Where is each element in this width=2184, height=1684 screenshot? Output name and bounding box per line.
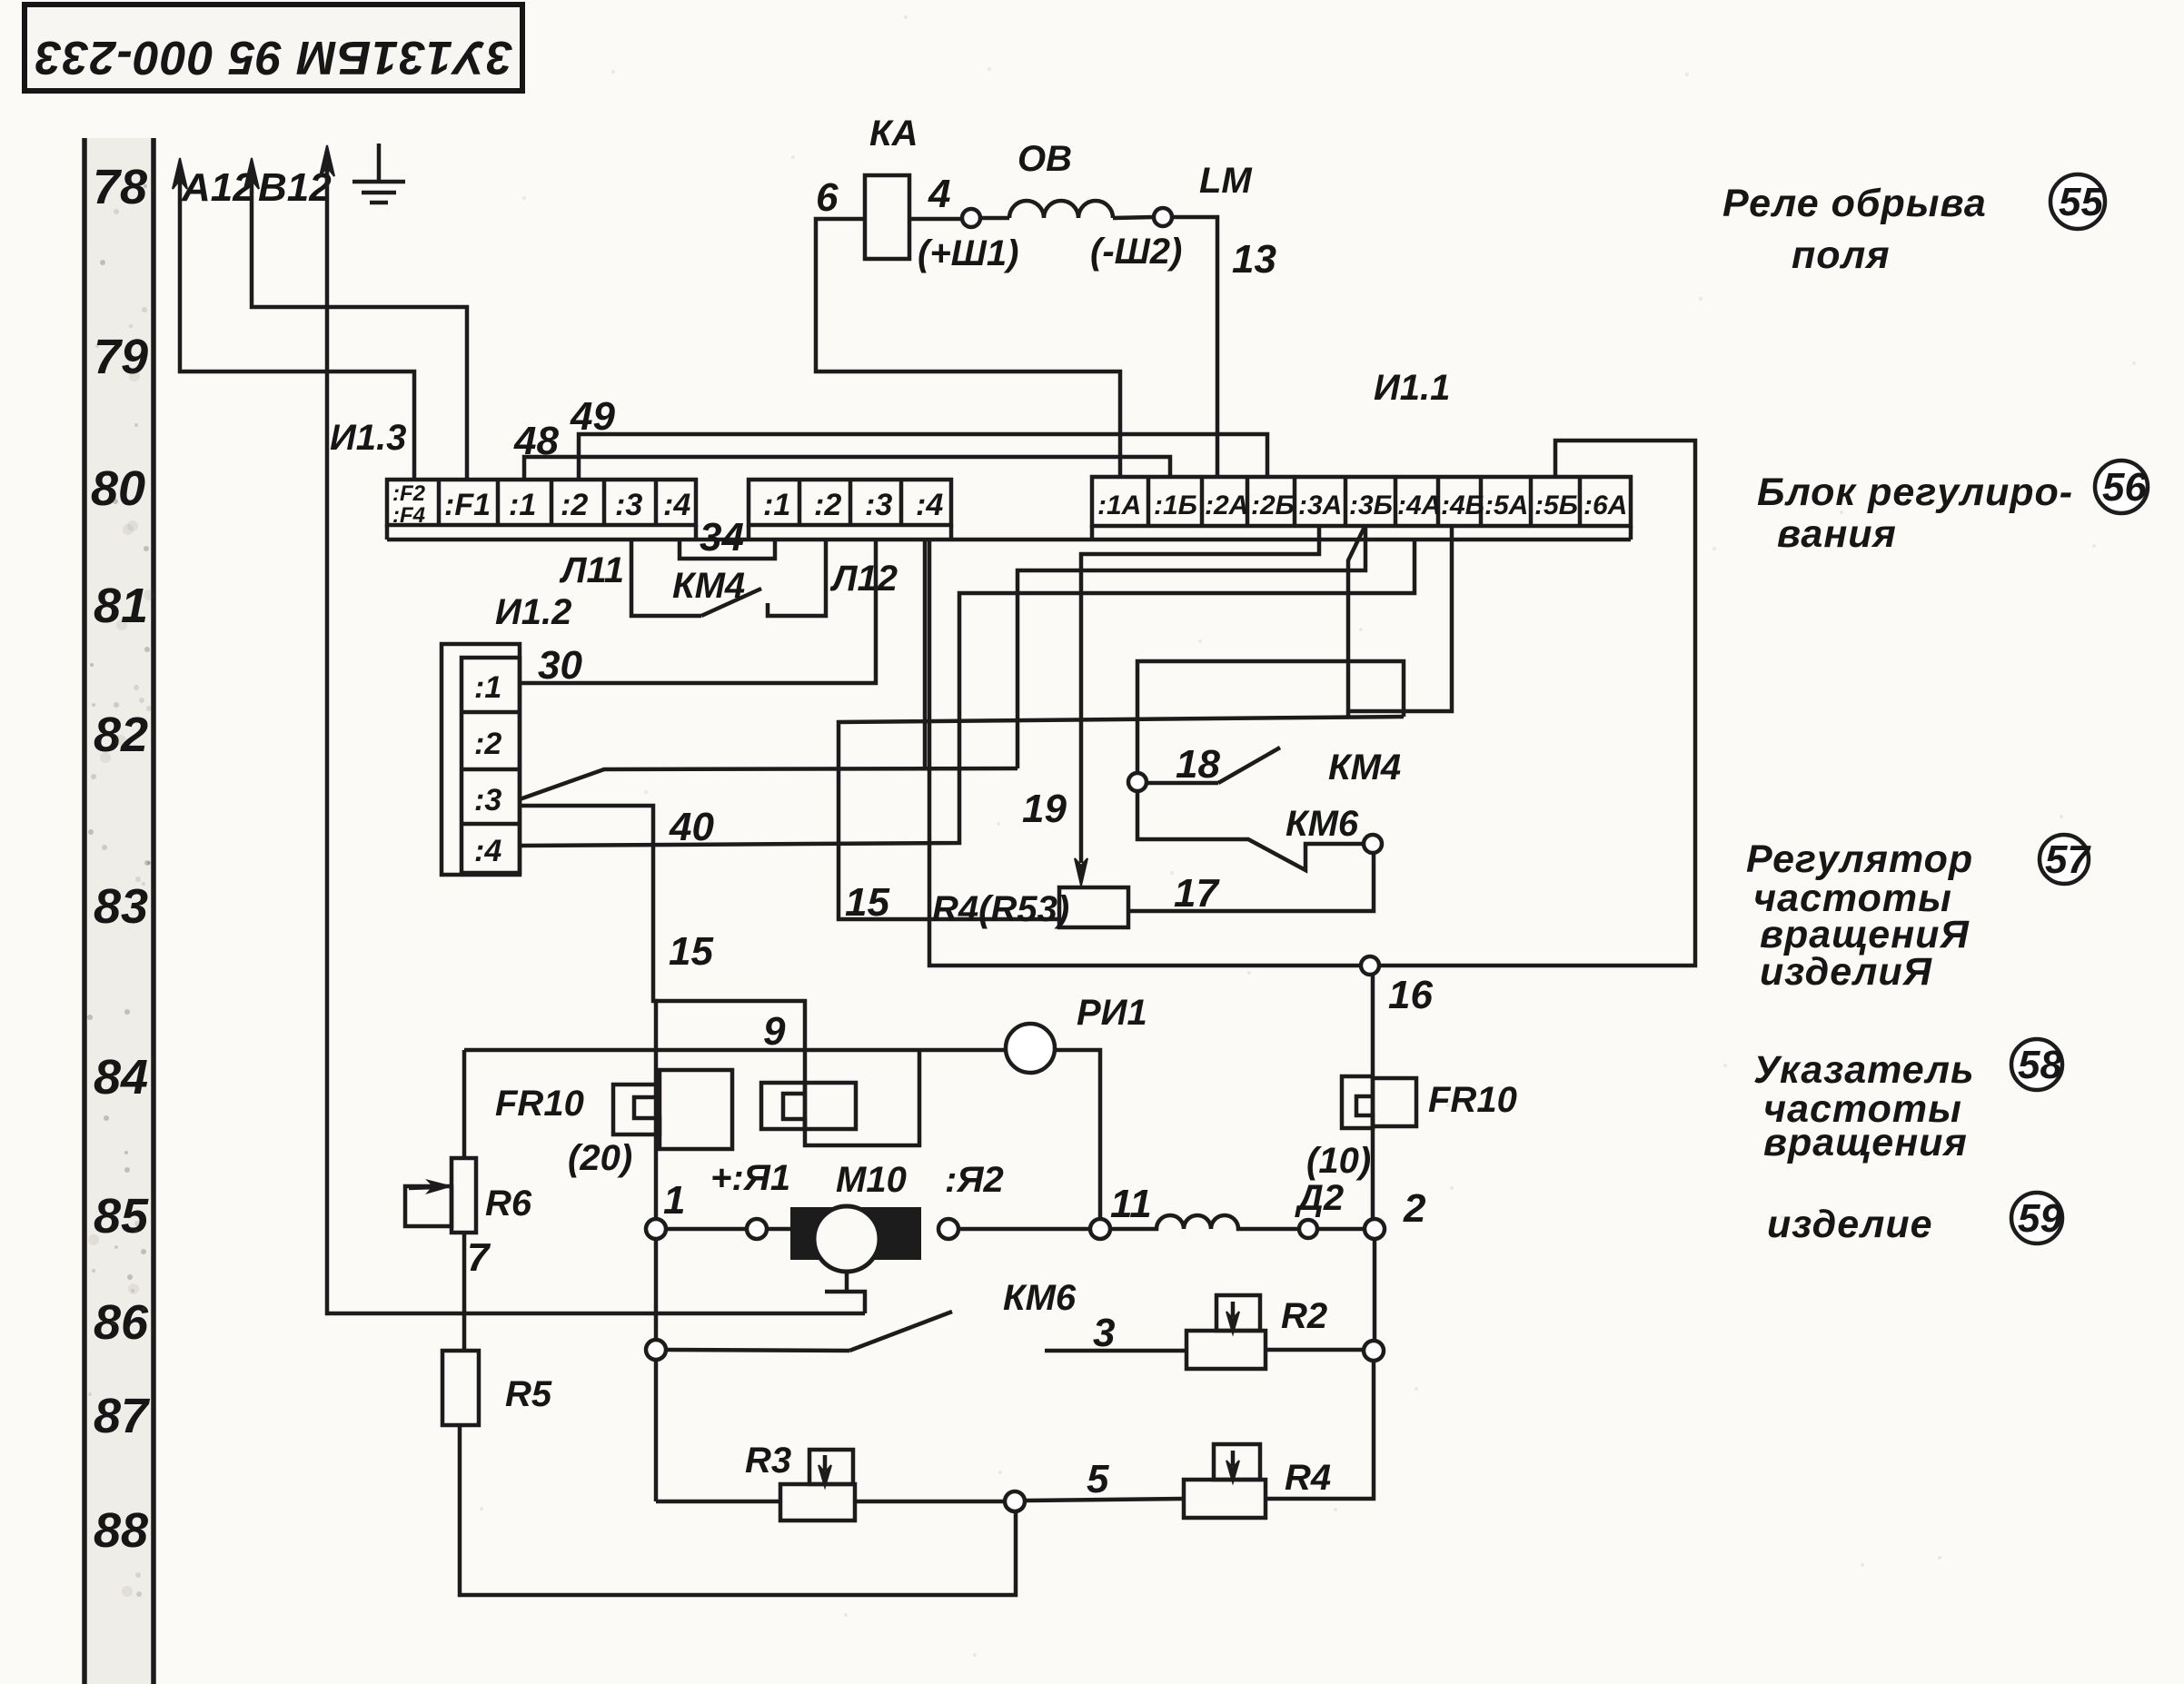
wire 13 (Sh2 to :2A) <box>1172 217 1217 478</box>
R2 wiper box <box>1216 1295 1260 1331</box>
svg-text:R2: R2 <box>1281 1296 1327 1336</box>
svg-text:79: 79 <box>94 330 148 384</box>
svg-text:Указатель: Указатель <box>1753 1048 1975 1092</box>
callout 57 <box>2040 835 2089 884</box>
svg-text::5Б: :5Б <box>1534 490 1578 520</box>
wire I1.3 long vertical <box>327 153 865 1313</box>
wire A12 <box>180 168 414 480</box>
svg-text::1: :1 <box>474 670 501 705</box>
svg-text:вания: вания <box>1777 512 1897 556</box>
svg-text:КМ6: КМ6 <box>1286 804 1359 844</box>
svg-text::2Б: :2Б <box>1251 490 1295 520</box>
node KM6 row <box>646 1340 666 1360</box>
resistor R5 <box>442 1351 479 1425</box>
svg-text:(20): (20) <box>568 1138 632 1178</box>
svg-text:изделиЯ: изделиЯ <box>1760 950 1933 994</box>
wire B12 <box>252 168 467 480</box>
svg-text:3У131БМ 95 000-233: 3У131БМ 95 000-233 <box>35 31 513 84</box>
wire B12 arrow <box>244 158 259 189</box>
R6 arrow <box>409 1187 436 1188</box>
wire 16 bridge (I1.3b:4 to :5B) <box>929 441 1695 966</box>
svg-text:16: 16 <box>1388 973 1433 1017</box>
svg-text:R5: R5 <box>505 1374 552 1414</box>
wire KM4 c1 up and over <box>1137 661 1404 773</box>
R4 wiper arrow <box>1231 1451 1236 1466</box>
svg-text:изделие: изделие <box>1767 1203 1933 1246</box>
fuse FR10 right <box>1342 1076 1416 1128</box>
svg-text:18: 18 <box>1176 742 1220 787</box>
wire 15 (I1.2:3 diagonal feeder) <box>520 768 1018 799</box>
svg-text::F1: :F1 <box>444 488 491 522</box>
RI1 top wire <box>464 1048 1006 1053</box>
wire node down to R4 <box>1266 1361 1374 1499</box>
svg-text:7: 7 <box>467 1235 491 1280</box>
wire junction16 to node 2 through fuse right <box>1371 975 1375 1219</box>
wire :3B diagonal down to net 15 <box>1348 527 1365 716</box>
margin strip background <box>87 138 153 1684</box>
wire KM6 row left <box>666 1350 849 1351</box>
wire node2 down chain <box>1373 1239 1377 1341</box>
svg-text:4: 4 <box>928 172 950 216</box>
wire KA right to Sh1 <box>909 217 962 222</box>
wire L11 (I1.3:3 down) <box>631 541 701 616</box>
svg-text:17: 17 <box>1174 871 1220 916</box>
node R2 right <box>1364 1341 1384 1361</box>
svg-text:86: 86 <box>94 1295 149 1350</box>
svg-text:15: 15 <box>669 929 713 974</box>
motor M10 rotor <box>814 1206 879 1272</box>
wire 15/9 (I1.2:3 down to node 1) <box>520 806 656 1220</box>
svg-text:83: 83 <box>94 879 148 934</box>
inductor OB <box>1009 201 1113 218</box>
wire R3 to node 5 <box>855 1500 1005 1504</box>
svg-text::Я2: :Я2 <box>945 1160 1004 1200</box>
wire coil to Sh2 <box>1113 217 1154 218</box>
wire node1 down <box>654 1239 659 1340</box>
wire 9 jog to fuse B <box>656 1001 919 1145</box>
R2 wiper arrow <box>1231 1302 1236 1317</box>
contact KM4 blade (lower of I1.3) <box>701 589 761 616</box>
svg-text:55: 55 <box>2059 180 2103 224</box>
svg-text:R3: R3 <box>745 1441 791 1481</box>
contact KM4 fixed side with wire L12 to I1.3b:2 <box>768 541 826 616</box>
svg-text:15: 15 <box>845 880 889 925</box>
contact KM4 pivot <box>1128 773 1147 791</box>
svg-text:КА: КА <box>869 114 918 154</box>
svg-text:30: 30 <box>538 643 582 688</box>
relay KA <box>865 175 909 259</box>
svg-text:+:Я1: +:Я1 <box>710 1158 790 1198</box>
potentiometer R4(R53) <box>1059 887 1128 927</box>
svg-text::1: :1 <box>509 488 536 522</box>
svg-text::2: :2 <box>474 727 501 761</box>
wire to R2 <box>1045 1349 1186 1353</box>
wire 6 (KA left to :1A) <box>816 219 1120 478</box>
wire up to I1.3b:4 <box>923 541 928 768</box>
svg-text:Л12: Л12 <box>829 559 898 599</box>
motor ground stub <box>825 1272 865 1313</box>
svg-text:Реле обрыва: Реле обрыва <box>1722 182 1987 225</box>
svg-text:87: 87 <box>94 1389 151 1443</box>
svg-text:И1.1: И1.1 <box>1374 368 1450 408</box>
connector block I1.3 <box>387 480 696 525</box>
R4 wiper box <box>1214 1444 1260 1480</box>
svg-text::2: :2 <box>814 488 841 522</box>
potentiometer R3 <box>780 1484 855 1521</box>
svg-text::4: :4 <box>663 488 690 522</box>
wire 30 (I1.2:1 to I1.3b:3) <box>520 541 876 683</box>
callout 56 <box>2095 461 2148 513</box>
svg-text::3А: :3А <box>1298 490 1342 520</box>
svg-text:56: 56 <box>2102 465 2147 510</box>
svg-text:И1.3: И1.3 <box>330 418 406 458</box>
callout 55 <box>2050 174 2105 229</box>
stamp box <box>25 5 522 91</box>
wire Ya2 to node 11 <box>958 1227 1090 1232</box>
svg-text:FR10: FR10 <box>1428 1080 1517 1120</box>
wire R4 left to node 5 <box>1025 1499 1184 1501</box>
svg-text::1: :1 <box>763 488 790 522</box>
terminal D2 <box>1299 1220 1317 1238</box>
svg-text:2: 2 <box>1403 1186 1426 1231</box>
contact KM4 open blade <box>1218 748 1280 783</box>
svg-text:вращения: вращения <box>1763 1121 1968 1164</box>
svg-text:1: 1 <box>663 1178 685 1223</box>
margin strip right border line <box>151 138 156 1684</box>
svg-text:(10): (10) <box>1306 1141 1371 1181</box>
svg-text:40: 40 <box>669 805 714 849</box>
margin strip left border line <box>82 138 87 1684</box>
connector block I1.2 cells <box>462 658 520 873</box>
svg-text:Л11: Л11 <box>559 550 624 590</box>
svg-text::F2: :F2 <box>392 481 426 506</box>
wire D2 to node 2 <box>1317 1227 1365 1232</box>
svg-text::F4: :F4 <box>392 503 425 528</box>
wire node1 column to R3 row <box>654 1360 659 1501</box>
arrowhead wire 19 <box>1075 858 1087 886</box>
contact KM6 fixed pivot <box>1364 835 1382 853</box>
connector block I1.1 <box>1092 477 1631 526</box>
wire RI1 to node 11 <box>1055 1050 1100 1219</box>
jumper 34 <box>680 541 775 559</box>
svg-text:5: 5 <box>1087 1457 1109 1501</box>
wire R5 to bottom rail <box>460 1425 1016 1595</box>
contact KM4 line <box>1147 781 1218 786</box>
svg-text:59: 59 <box>2018 1196 2062 1241</box>
svg-text:Регулятор: Регулятор <box>1746 837 1973 881</box>
svg-text:Д2: Д2 <box>1295 1178 1344 1218</box>
svg-text::2А: :2А <box>1205 490 1248 520</box>
svg-text:РИ1: РИ1 <box>1077 993 1147 1033</box>
svg-text:(+Ш1): (+Ш1) <box>918 233 1018 273</box>
wire A12 arrow <box>173 158 187 189</box>
svg-text:13: 13 <box>1232 237 1276 282</box>
svg-text:78: 78 <box>93 160 147 214</box>
choke D2 coil <box>1110 1215 1298 1229</box>
svg-text:R4(R53): R4(R53) <box>932 889 1069 929</box>
potentiometer R2 <box>1186 1331 1266 1369</box>
svg-text:9: 9 <box>763 1009 786 1054</box>
svg-text:19: 19 <box>1022 787 1067 831</box>
wire 17 (pot to KM6) <box>1128 853 1374 911</box>
fuse FR10 A <box>613 1070 732 1149</box>
svg-text:R4: R4 <box>1285 1458 1331 1498</box>
svg-text::3: :3 <box>865 488 892 522</box>
wire Ya1 to motor <box>767 1227 790 1232</box>
svg-text:FR10: FR10 <box>495 1084 584 1124</box>
connector sub-block I1.3b <box>749 480 951 525</box>
wire 7 (R6 to R5) <box>462 1233 467 1351</box>
connector block I1.2 outer <box>442 644 520 875</box>
svg-text:58: 58 <box>2018 1043 2062 1087</box>
terminal Sh2 <box>1154 208 1172 226</box>
wire :4B down to net 15 <box>1350 526 1452 711</box>
wire node1 to Ya1 <box>666 1227 747 1232</box>
svg-text:84: 84 <box>94 1050 148 1105</box>
resistor R6 <box>452 1158 476 1233</box>
svg-text:поля: поля <box>1792 233 1891 277</box>
svg-text:И1.2: И1.2 <box>495 592 571 632</box>
wire R2 to node <box>1266 1348 1364 1352</box>
svg-text:КМ4: КМ4 <box>672 566 745 606</box>
svg-text:49: 49 <box>570 394 615 439</box>
svg-text:КМ6: КМ6 <box>1003 1278 1077 1318</box>
contact KM6 blade (lower) <box>849 1312 952 1351</box>
svg-text:R6: R6 <box>485 1184 532 1223</box>
callout 58 <box>2011 1039 2062 1090</box>
svg-text::6А: :6А <box>1583 490 1627 520</box>
svg-text::4: :4 <box>916 488 943 522</box>
svg-text::1Б: :1Б <box>1154 490 1197 520</box>
contact KM6 blade <box>1137 791 1364 870</box>
wire 49 (I1.3:2 to :2B) <box>579 434 1267 480</box>
svg-text::1А: :1А <box>1097 490 1141 520</box>
svg-text::3: :3 <box>615 488 642 522</box>
svg-text::4: :4 <box>474 834 501 868</box>
svg-text:ОВ: ОВ <box>1018 139 1072 179</box>
svg-text:57: 57 <box>2045 837 2091 882</box>
node 1 <box>646 1219 666 1239</box>
terminal Ya1 <box>747 1219 767 1239</box>
node 11 <box>1090 1219 1110 1239</box>
ground <box>352 144 405 203</box>
node 5 <box>1005 1491 1025 1511</box>
junction 16 <box>1361 956 1379 975</box>
fuse FR10 B <box>761 1083 856 1129</box>
wire R3 row left <box>656 1500 780 1504</box>
R3 wiper arrow <box>823 1455 828 1471</box>
terminal Ya2 <box>938 1219 958 1239</box>
R3 wiper box <box>809 1450 853 1484</box>
terminal Sh1 <box>962 209 980 227</box>
svg-text:3: 3 <box>1093 1311 1115 1355</box>
svg-text::3: :3 <box>474 783 501 817</box>
svg-text:48: 48 <box>513 419 559 463</box>
svg-text::4Б: :4Б <box>1441 490 1484 520</box>
wire up to :3B via H2 <box>1018 527 1365 768</box>
svg-text::5А: :5А <box>1484 490 1528 520</box>
wire Sh1 to coil <box>980 216 1009 221</box>
motor M10 body <box>790 1207 921 1260</box>
wire 40 (I1.2:4 to :4A chain) <box>520 541 1415 846</box>
callout 59 <box>2011 1193 2062 1243</box>
wire I1.3 arrow <box>320 145 334 176</box>
indicator RI1 <box>1006 1024 1055 1073</box>
potentiometer R4 <box>1184 1480 1266 1518</box>
svg-text:11: 11 <box>1110 1182 1152 1226</box>
wire 19 (:3A to pot R4 arrow) <box>1081 526 1319 863</box>
svg-text:34: 34 <box>700 515 744 560</box>
svg-text:85: 85 <box>94 1189 149 1243</box>
wire RI1 loop left / R6 top <box>462 1050 467 1158</box>
svg-text::2: :2 <box>561 488 588 522</box>
svg-text:88: 88 <box>94 1503 148 1558</box>
svg-text:Блок регулиро-: Блок регулиро- <box>1757 471 2073 514</box>
wire 48 (I1.3:1 to :1B) <box>524 457 1170 480</box>
svg-text::3Б: :3Б <box>1349 490 1393 520</box>
wire net 15 horizontal to pot <box>839 717 1404 919</box>
svg-text:LМ: LМ <box>1199 161 1253 201</box>
R6 adjust tab <box>405 1186 452 1226</box>
svg-text:КМ4: КМ4 <box>1328 748 1401 788</box>
svg-text:М10: М10 <box>836 1160 907 1200</box>
svg-text:6: 6 <box>816 175 839 220</box>
svg-text:80: 80 <box>91 461 145 516</box>
svg-text::4А: :4А <box>1397 490 1441 520</box>
svg-text:(-Ш2): (-Ш2) <box>1090 232 1182 272</box>
connector bottom strip line <box>387 525 1631 540</box>
node 2 <box>1365 1219 1385 1239</box>
